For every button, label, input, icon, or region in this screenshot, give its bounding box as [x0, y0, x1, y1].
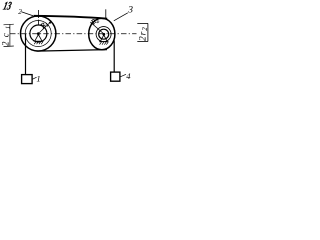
svg-text:1: 1	[36, 73, 40, 83]
svg-text:2r2: 2r2	[139, 26, 149, 41]
svg-text:2: 2	[18, 8, 22, 16]
svg-text:3: 3	[127, 5, 133, 15]
svg-text:4: 4	[126, 71, 131, 81]
